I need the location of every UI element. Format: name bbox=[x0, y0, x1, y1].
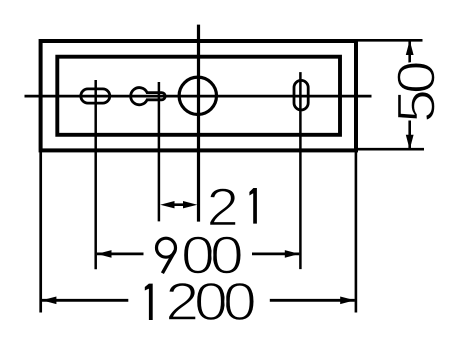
label 900 digit "9" (custom) bbox=[157, 238, 176, 273]
keyhole slot bbox=[131, 88, 166, 105]
circle vertical centerline bbox=[197, 25, 200, 222]
label 900 text "00" bbox=[181, 226, 242, 286]
right extension line 1200 bbox=[355, 150, 358, 313]
1200 arrow left bbox=[42, 297, 57, 305]
900 dimension line right bbox=[252, 252, 299, 255]
label 1200 digit "1" (custom) bbox=[145, 284, 153, 320]
900 dimension line left bbox=[97, 252, 144, 255]
left slot bbox=[81, 89, 110, 103]
21 arrow right bbox=[183, 201, 197, 208]
svg-text:200: 200 bbox=[165, 272, 254, 332]
right oval bbox=[294, 80, 308, 110]
21 arrow left bbox=[160, 201, 174, 208]
left slot extension line bbox=[94, 80, 97, 269]
21 dimension shaft bbox=[168, 203, 189, 206]
keyhole extension line bbox=[158, 82, 161, 221]
label 21 text "2" bbox=[207, 176, 237, 237]
1200 arrow right bbox=[340, 297, 355, 305]
900 arrow left bbox=[97, 250, 112, 258]
label 1200 text "200" bbox=[165, 272, 254, 332]
centerline horizontal bbox=[25, 95, 372, 98]
label 50 (rotated) bbox=[387, 62, 447, 123]
50 top extension line bbox=[357, 39, 423, 42]
left extension line 1200 bbox=[39, 150, 42, 313]
50 bottom extension line bbox=[357, 148, 424, 151]
1200 dimension line left bbox=[42, 299, 129, 302]
svg-text:50: 50 bbox=[387, 62, 447, 123]
50 arrow down bbox=[406, 135, 414, 150]
900 arrow right bbox=[285, 250, 300, 258]
outer rect bbox=[41, 41, 356, 150]
inner rect bbox=[57, 57, 340, 135]
circle bbox=[179, 77, 216, 114]
50 dimension line upper bbox=[408, 42, 411, 64]
50 arrow up bbox=[406, 40, 414, 55]
right oval extension line bbox=[299, 72, 302, 269]
1200 dimension line right bbox=[270, 299, 355, 302]
label 21 digit "1" (custom) bbox=[249, 188, 257, 224]
50 dimension line lower bbox=[408, 121, 411, 149]
